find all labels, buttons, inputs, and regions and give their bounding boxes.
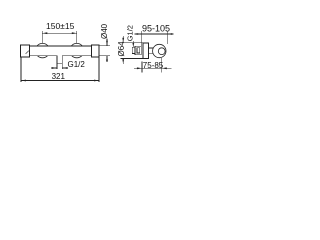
svg-text:G1/2: G1/2 [68, 60, 86, 69]
svg-text:321: 321 [52, 72, 66, 81]
svg-text:G1/2: G1/2 [126, 25, 135, 41]
svg-text:Ø64: Ø64 [117, 41, 126, 57]
svg-text:150±15: 150±15 [46, 21, 75, 31]
svg-text:75-85: 75-85 [143, 61, 164, 70]
svg-text:95-105: 95-105 [142, 23, 170, 33]
svg-text:Ø40: Ø40 [100, 23, 109, 39]
